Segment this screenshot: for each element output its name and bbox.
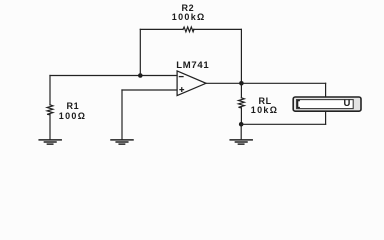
op-amp plus pin symbol xyxy=(180,88,184,92)
wire inverting input horizontal xyxy=(50,75,177,77)
voltmeter U1 body xyxy=(293,97,361,111)
wire voltmeter top drop xyxy=(325,83,327,97)
resistor R1 xyxy=(47,105,53,115)
svg-text:R1: R1 xyxy=(67,101,80,111)
wire op-amp output xyxy=(206,82,241,84)
svg-text:10kΩ: 10kΩ xyxy=(251,105,278,115)
op-amp minus pin symbol xyxy=(179,76,183,78)
wire noninverting ground drop xyxy=(121,90,123,140)
wire noninverting input horizontal xyxy=(122,89,177,91)
node A junction dot inverting input xyxy=(138,73,143,78)
node B junction dot output xyxy=(239,81,244,86)
wire feedback top right xyxy=(193,28,241,30)
wire voltmeter bottom return xyxy=(241,123,325,125)
svg-text:LM741: LM741 xyxy=(176,60,209,71)
voltmeter left bracket xyxy=(298,101,300,108)
resistor RL xyxy=(239,98,245,108)
ground under R1 xyxy=(39,140,61,144)
wire R1 top vertical xyxy=(49,76,51,105)
ground under RL xyxy=(230,140,252,144)
node C junction dot RL bottom xyxy=(239,122,244,127)
voltmeter display window xyxy=(297,100,354,109)
wire RL bottom vertical xyxy=(240,108,242,125)
wire voltmeter bottom drop xyxy=(325,111,327,124)
wire output to voltmeter top xyxy=(241,82,325,84)
wire feedback right vertical xyxy=(240,29,242,83)
svg-text:100kΩ: 100kΩ xyxy=(172,12,206,22)
wire R1 bottom vertical xyxy=(49,115,51,140)
wire feedback top left xyxy=(140,28,183,30)
wire feedback left vertical xyxy=(139,29,141,75)
ground under noninverting input xyxy=(111,140,133,144)
resistor R2 xyxy=(183,27,194,32)
svg-text:100Ω: 100Ω xyxy=(59,111,86,121)
wire RL to ground xyxy=(240,124,242,140)
svg-text:U: U xyxy=(344,98,351,109)
op-amp U1 LM741 triangle xyxy=(177,71,206,96)
wire RL top vertical xyxy=(240,83,242,98)
